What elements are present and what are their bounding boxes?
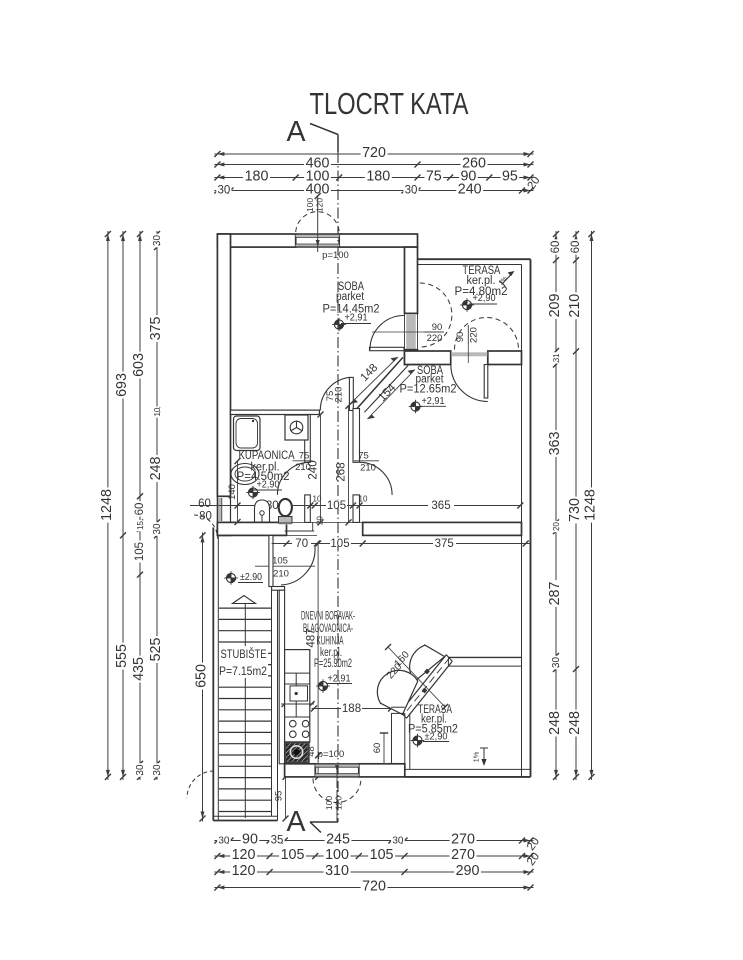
entrance door swing dashed bottom left <box>187 771 214 798</box>
window bottom swing arc dashed <box>313 779 361 803</box>
svg-text:100: 100 <box>324 796 334 810</box>
dim 60 step <box>372 733 388 764</box>
label 75/210 rotated door corridor-soba1 <box>325 387 345 403</box>
kitchen sink <box>290 686 308 701</box>
dim 140 rotated in bathroom <box>227 458 241 525</box>
svg-text:STUBIŠTE: STUBIŠTE <box>221 648 267 661</box>
svg-text:70: 70 <box>295 538 308 550</box>
svg-text:KUHINJA: KUHINJA <box>317 636 344 648</box>
svg-text:210: 210 <box>334 387 345 403</box>
svg-text:180: 180 <box>366 169 390 185</box>
svg-text:248: 248 <box>567 711 583 735</box>
svg-text:30: 30 <box>152 523 163 535</box>
svg-text:248: 248 <box>148 457 164 481</box>
svg-text:245: 245 <box>326 832 350 848</box>
window bottom dim 100/120 <box>324 765 344 821</box>
section mark A top <box>287 116 339 152</box>
svg-text:A: A <box>287 116 307 148</box>
svg-text:60: 60 <box>372 743 383 754</box>
exterior wall top with window gap <box>217 234 417 247</box>
terasa bottom top wall <box>448 657 521 666</box>
svg-text:105: 105 <box>281 847 305 863</box>
svg-text:105: 105 <box>327 500 346 512</box>
dim 48 rotated kitchen bottom <box>306 746 321 780</box>
svg-text:30: 30 <box>392 836 404 847</box>
window top p=100 frame <box>296 234 340 247</box>
svg-text:TLOCRT KATA: TLOCRT KATA <box>310 86 469 121</box>
svg-text:30: 30 <box>218 185 231 197</box>
label 90/220 door soba1-terasa <box>372 322 444 344</box>
door corridor-soba1 leaf and arc <box>320 377 353 410</box>
dimension chain bottom row3: 120 310 290 <box>214 863 533 879</box>
svg-text:720: 720 <box>362 879 386 895</box>
dim 268 rotated soba2 <box>336 403 352 526</box>
door soba2-terasa dashed swing in terasa <box>455 318 519 350</box>
terrace double door leaves (petals) <box>377 645 444 714</box>
svg-text:365: 365 <box>431 500 450 512</box>
wall terasa-soba2 with door opening <box>405 351 522 365</box>
step wall under landing <box>272 587 285 591</box>
svg-text:10: 10 <box>153 407 162 416</box>
svg-text:693: 693 <box>114 373 130 397</box>
exterior wall left <box>217 234 230 535</box>
svg-text:BLAGOVAONICA-: BLAGOVAONICA- <box>303 623 353 635</box>
svg-text:80: 80 <box>199 511 212 523</box>
svg-text:30: 30 <box>405 185 418 197</box>
corridor right wall (soba2 left) with door opening <box>353 409 360 523</box>
label 160/220 rotated terrace door <box>385 649 412 681</box>
svg-text:310: 310 <box>325 863 349 879</box>
svg-text:730: 730 <box>567 498 583 522</box>
svg-text:75: 75 <box>426 169 442 185</box>
wall between soba1 and terasa (right wall of soba1) with door opening <box>405 247 418 364</box>
dimension chain left col3: 603 60 15 105 435 30 <box>131 231 147 780</box>
dimension chain bottom row4: 720 <box>214 879 533 895</box>
svg-text:525: 525 <box>148 638 164 662</box>
dim chain A inside bathroom-corridor y=505 <box>190 495 523 513</box>
bathtub <box>234 416 261 451</box>
dim 650 stairwell left <box>194 532 210 821</box>
svg-text:60: 60 <box>570 241 582 254</box>
dimension chain top row2: 460 260 <box>214 156 533 172</box>
svg-text:105: 105 <box>330 538 349 550</box>
svg-text:210: 210 <box>360 463 376 474</box>
dim 62 kitchen <box>281 695 315 707</box>
door soba2 arc <box>360 462 393 495</box>
svg-text:±2,90: ±2,90 <box>425 732 449 743</box>
svg-text:1%: 1% <box>472 751 481 762</box>
kitchen counter <box>285 650 310 742</box>
bathroom window swing arc dashed <box>194 515 218 539</box>
slope arrow 1pct top terasa <box>498 271 515 287</box>
svg-text:KUPAONICA: KUPAONICA <box>239 450 295 462</box>
svg-text:120: 120 <box>232 847 256 863</box>
stair treads <box>219 608 272 811</box>
svg-text:240: 240 <box>308 460 320 479</box>
dimension chain left col4: 30 375 10 248 30 525 30 <box>148 231 164 780</box>
terasa bottom left wall <box>405 713 410 777</box>
svg-text:188: 188 <box>342 703 361 715</box>
door soba2-terasa leaf and arc <box>451 365 488 402</box>
label SOBA 14.45 block <box>323 281 380 331</box>
dim 95 rotated below kitchen <box>274 774 289 822</box>
svg-text:105: 105 <box>134 542 146 561</box>
label KUPAONICA block <box>237 450 295 499</box>
svg-text:220: 220 <box>427 333 443 344</box>
svg-text:90: 90 <box>242 832 258 848</box>
svg-text:375: 375 <box>435 538 454 550</box>
svg-text:60: 60 <box>134 503 146 516</box>
dimension chain right col2: 60 210 730 248 <box>567 231 583 780</box>
dim 487 rotated dnevni <box>306 541 322 759</box>
diagonal wall soba2 <box>357 357 408 412</box>
label 105/210 landing door <box>255 556 315 580</box>
slope arrow 1pct bottom terrace <box>472 748 489 766</box>
svg-text:35: 35 <box>271 835 284 847</box>
svg-text:435: 435 <box>131 657 147 681</box>
svg-text:270: 270 <box>451 847 475 863</box>
label soba2 door 75/210 <box>354 451 379 474</box>
dim 240 rotated corridor <box>308 412 324 526</box>
dimension chain bottom row1: 30 90 35 245 30 270 20 <box>214 832 533 848</box>
washbasin <box>231 464 259 485</box>
dimension chain bottom row2: 120 105 100 105 270 20 <box>214 847 533 863</box>
svg-text:P=25.90m2: P=25.90m2 <box>314 658 352 670</box>
window top swing arc dashed <box>296 212 340 232</box>
section mark A bottom <box>287 806 339 838</box>
bidet <box>255 500 270 522</box>
svg-text:720: 720 <box>362 145 386 161</box>
svg-text:30: 30 <box>218 836 230 847</box>
svg-text:15: 15 <box>136 521 145 530</box>
svg-text:+2,90: +2,90 <box>473 293 497 304</box>
dimension chain left col2: 693 555 <box>114 231 130 780</box>
svg-text:60: 60 <box>198 498 211 510</box>
middle wall across building <box>217 522 521 535</box>
section axis line <box>337 152 339 822</box>
svg-text:1248: 1248 <box>583 489 599 521</box>
svg-text:±2.90: ±2.90 <box>240 572 262 583</box>
terrace door dim line 160/220 <box>385 644 448 710</box>
label TERASA top block <box>455 265 508 312</box>
svg-text:95: 95 <box>502 169 518 185</box>
svg-text:555: 555 <box>114 644 130 668</box>
svg-text:+2,91: +2,91 <box>328 674 351 685</box>
svg-text:60: 60 <box>550 241 562 254</box>
dimension chain top row3: 180 100 180 75 90 95 <box>214 169 533 185</box>
stairwell bottom wall <box>213 816 277 820</box>
label KUPAONICA door 75/210 <box>293 451 313 474</box>
door landing-dnevni arc 105 <box>281 547 315 585</box>
svg-text:75: 75 <box>299 451 310 462</box>
label SOBA 12.65 block <box>400 365 457 413</box>
label 90/220 rotated door soba2-terasa <box>455 325 480 363</box>
dimension chain left col1: 1248 <box>99 231 115 780</box>
svg-text:30: 30 <box>135 764 146 776</box>
svg-text:105: 105 <box>370 847 394 863</box>
svg-text:p=100: p=100 <box>318 749 345 760</box>
kitchen wall <box>279 590 284 764</box>
dimension chain top row4: 30 400 30 240 20 <box>214 182 533 198</box>
stove hatched <box>285 742 309 763</box>
step lines at terrace door <box>391 707 405 764</box>
svg-text:140: 140 <box>227 484 238 500</box>
svg-text:268: 268 <box>336 462 348 481</box>
svg-text:210: 210 <box>567 294 583 318</box>
svg-text:603: 603 <box>131 353 147 377</box>
bathroom window 60/80 in left wall <box>217 496 230 522</box>
svg-text:DNEVNI BORAVAK-: DNEVNI BORAVAK- <box>301 611 355 623</box>
svg-text:+2,91: +2,91 <box>345 313 368 324</box>
door soba1-terasa leaf and arc <box>370 316 405 351</box>
diagonal terrace door threshold slab <box>401 655 453 718</box>
label TERASA bottom block <box>408 704 458 747</box>
svg-text:90: 90 <box>432 322 443 333</box>
dimension chain right col3: 1248 <box>583 231 599 780</box>
stair center line and up arrow <box>233 596 256 819</box>
svg-text:290: 290 <box>456 863 480 879</box>
svg-text:30: 30 <box>551 657 562 669</box>
svg-text:650: 650 <box>194 664 210 688</box>
dim chain B y=543 70 105 375 <box>272 538 531 551</box>
svg-text:1248: 1248 <box>99 489 115 521</box>
svg-text:220: 220 <box>469 327 480 343</box>
washing machine <box>285 415 308 440</box>
dimension chain top row1: 720 <box>214 145 533 161</box>
svg-text:30: 30 <box>152 235 163 247</box>
svg-text:120: 120 <box>334 796 344 810</box>
svg-text:209: 209 <box>547 294 563 318</box>
labels 60/80 bathroom window <box>198 498 212 523</box>
terasa bottom bottom wall <box>405 769 531 777</box>
toilet <box>279 499 293 525</box>
svg-text:105: 105 <box>272 556 288 567</box>
door soba1-terasa dashed swing in terasa <box>420 283 452 347</box>
svg-text:10: 10 <box>359 495 368 504</box>
window bottom p=100 frame <box>315 764 359 777</box>
svg-text:363: 363 <box>547 432 563 456</box>
svg-text:90: 90 <box>455 332 466 343</box>
diagonal dim 148 <box>351 357 399 404</box>
svg-text:270: 270 <box>451 832 475 848</box>
svg-text:p=100: p=100 <box>322 250 349 261</box>
svg-text:31: 31 <box>552 353 561 362</box>
corridor left wall (bathroom right) with door opening <box>305 415 311 523</box>
diagonal dim 154 <box>367 370 415 420</box>
svg-text:P=7.15m2: P=7.15m2 <box>219 666 267 678</box>
svg-text:95: 95 <box>274 791 285 802</box>
door bathroom arc <box>277 462 310 495</box>
svg-text:P=12.65m2: P=12.65m2 <box>400 383 457 395</box>
svg-text:20: 20 <box>552 522 561 531</box>
svg-text:+2,90: +2,90 <box>257 480 281 491</box>
svg-text:100: 100 <box>305 198 315 212</box>
level marker landing +2.90 <box>224 571 263 585</box>
svg-text:210: 210 <box>273 569 289 580</box>
svg-text:parket: parket <box>336 291 365 303</box>
label STUBISTE <box>219 646 268 678</box>
svg-text:375: 375 <box>148 317 164 341</box>
svg-text:30: 30 <box>152 764 163 776</box>
terasa top parapet <box>418 259 531 264</box>
wall soba1 bottom / bathroom top <box>231 410 320 414</box>
svg-text:75: 75 <box>358 451 369 462</box>
svg-text:240: 240 <box>458 182 482 198</box>
svg-text:180: 180 <box>245 169 269 185</box>
svg-text:287: 287 <box>547 582 563 606</box>
svg-text:+2,91: +2,91 <box>422 396 445 407</box>
svg-text:100: 100 <box>325 847 349 863</box>
dnevni bottom wall with window gap <box>285 764 405 777</box>
stairwell right wall <box>272 590 278 820</box>
window top dim 100/120 <box>305 193 325 252</box>
svg-text:120: 120 <box>315 198 325 212</box>
svg-text:248: 248 <box>547 711 563 735</box>
dim 188 dnevni <box>311 703 394 716</box>
stairwell outer wall left <box>213 528 218 821</box>
label DNEVNI block <box>301 611 355 693</box>
dimension chain right col1: 60 209 31 363 20 287 30 248 <box>547 231 563 780</box>
svg-text:A: A <box>287 806 307 838</box>
kitchen burners <box>290 720 309 737</box>
svg-text:120: 120 <box>232 863 256 879</box>
landing right wall <box>269 535 273 586</box>
exterior wall right full height <box>522 259 531 777</box>
